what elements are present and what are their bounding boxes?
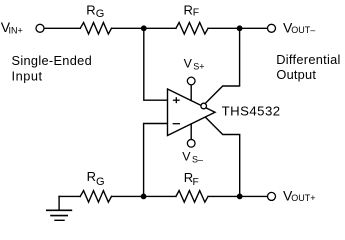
pin VS+ wire [190,85,192,101]
svg-text:S–: S– [192,155,203,165]
svg-text:S+: S+ [193,62,204,72]
svg-text:R: R [87,169,96,184]
resistor RF top [176,23,208,35]
pin VS- wire [190,124,192,139]
svg-text:G: G [96,176,105,188]
op-amp U1 THS4532 [168,89,216,136]
wire plus input [144,28,168,100]
svg-text:Single-Ended: Single-Ended [12,53,92,68]
resistor RG top [80,23,111,35]
wire bottom left [59,195,80,197]
svg-text:THS4532: THS4532 [222,103,281,118]
svg-text:OUT+: OUT+ [291,193,315,203]
wire bottom right [208,195,268,197]
svg-text:F: F [193,177,199,188]
node N3 junction [141,194,147,200]
wire bottom mid [112,195,176,197]
output bubble OUT- [201,103,207,109]
terminal VS- [187,139,195,147]
wire out-pos feedback [205,117,240,196]
wire minus input [144,124,168,197]
node N2 junction [237,25,243,31]
svg-text:V: V [184,57,193,71]
wire top right [208,27,268,29]
op-amp minus sign [173,123,180,125]
ground [47,196,72,220]
resistor RF bottom [176,191,208,203]
terminal VOUT- [268,24,276,32]
wire top mid [112,27,176,29]
node N1 junction [141,25,147,31]
terminal VIN+ [36,24,44,32]
svg-text:F: F [193,8,199,19]
terminal VOUT+ [268,192,276,200]
svg-text:R: R [86,3,95,18]
wire top input [44,27,80,29]
svg-text:IN+: IN+ [9,25,23,35]
svg-text:V: V [182,150,191,164]
svg-text:Output: Output [276,67,316,82]
resistor RG bottom [80,191,111,203]
svg-text:Differential: Differential [276,52,340,67]
svg-text:G: G [96,8,105,20]
op-amp plus sign [173,99,180,101]
terminal VS+ [187,77,195,85]
svg-text:OUT–: OUT– [291,25,315,35]
node N4 junction [237,194,243,200]
wire out-neg feedback [205,28,239,103]
svg-text:R: R [184,2,193,17]
svg-text:Input: Input [12,68,43,83]
